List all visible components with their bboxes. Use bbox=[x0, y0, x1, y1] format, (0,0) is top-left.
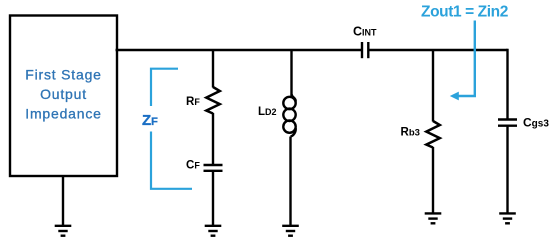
wire RF to CF bbox=[212, 113, 214, 165]
wire LD2 to ground bbox=[289, 137, 291, 226]
svg-text:LD2: LD2 bbox=[258, 106, 277, 118]
ground under box bbox=[55, 226, 72, 236]
wire CF to ground bbox=[212, 171, 214, 226]
wire Cgs3 to ground bbox=[506, 126, 508, 213]
wire main horizontal left segment bbox=[116, 49, 362, 51]
resistor RF bbox=[206, 87, 220, 114]
ground under Cgs3 bbox=[499, 213, 516, 223]
wire RF branch top bbox=[212, 50, 214, 88]
first stage output impedance block bbox=[10, 16, 117, 177]
bracket ZF bottom bbox=[151, 132, 192, 189]
svg-text:First Stage: First Stage bbox=[25, 67, 102, 83]
bracket ZF top bbox=[151, 69, 178, 106]
capacitor CF bbox=[204, 165, 223, 171]
svg-text:Rb3: Rb3 bbox=[401, 127, 420, 139]
svg-text:CINT: CINT bbox=[353, 25, 377, 39]
ground under Rb3 bbox=[425, 213, 442, 223]
wire Rb3 to ground bbox=[432, 147, 434, 213]
svg-text:Output: Output bbox=[40, 86, 87, 102]
ground under LD2 bbox=[282, 226, 299, 236]
svg-text:Zout1 = Zin2: Zout1 = Zin2 bbox=[421, 3, 508, 20]
capacitor Cgs3 bbox=[498, 120, 517, 126]
wire main horizontal right segment bbox=[369, 49, 508, 51]
svg-text:ZF: ZF bbox=[142, 112, 158, 129]
inductor LD2 bbox=[283, 94, 295, 136]
wire box to ground bbox=[62, 176, 64, 226]
svg-text:RF: RF bbox=[186, 96, 200, 108]
resistor Rb3 bbox=[426, 121, 440, 148]
label First Stage Output Impedance bbox=[25, 67, 102, 122]
ground under CF bbox=[205, 226, 222, 236]
svg-text:CF: CF bbox=[186, 159, 200, 171]
wire Rb3 branch top bbox=[432, 50, 434, 122]
arrow Zout1 to node bbox=[450, 21, 475, 101]
wire Cgs3 branch top bbox=[506, 49, 508, 120]
capacitor CINT bbox=[362, 42, 368, 58]
svg-text:Impedance: Impedance bbox=[25, 106, 101, 122]
wire LD2 branch top bbox=[290, 50, 292, 96]
svg-text:Cgs3: Cgs3 bbox=[523, 116, 549, 130]
